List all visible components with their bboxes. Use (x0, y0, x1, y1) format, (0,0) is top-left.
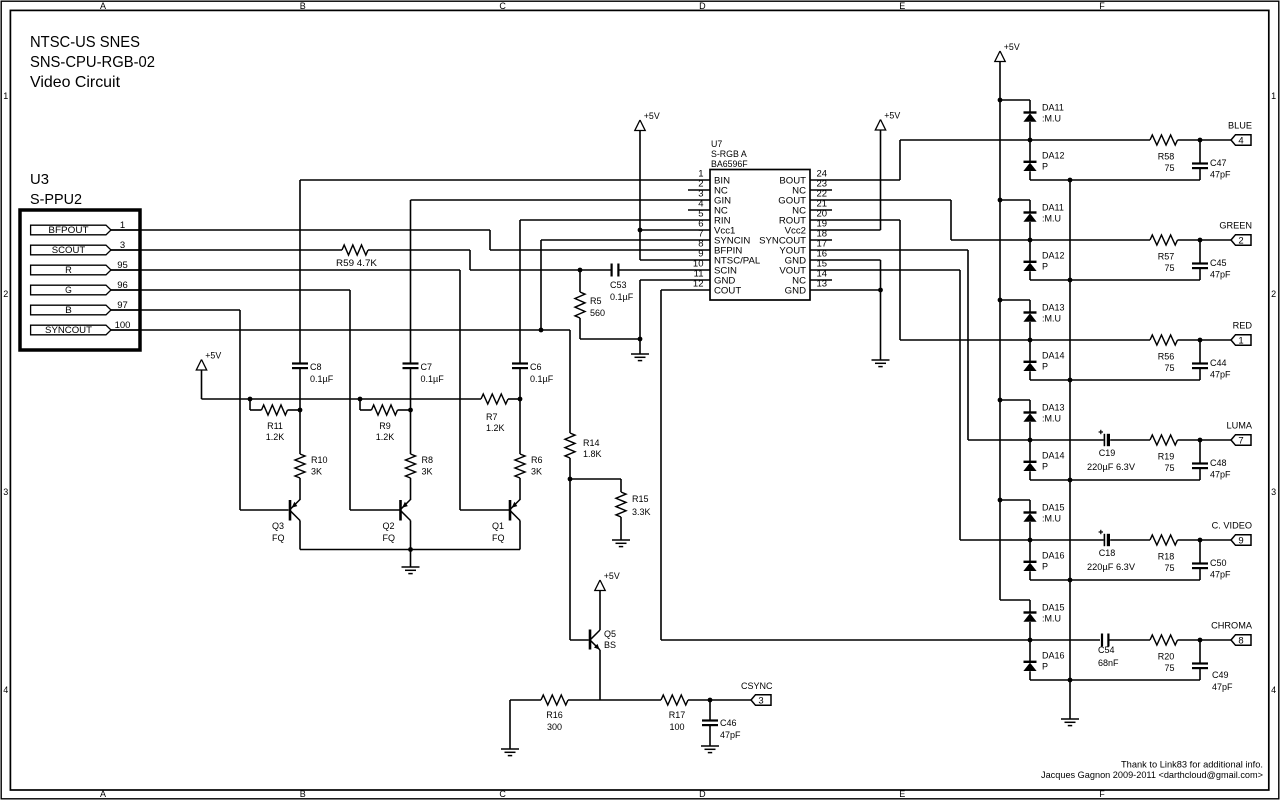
svg-text:+5V: +5V (884, 111, 900, 121)
svg-text:FQ: FQ (272, 533, 285, 543)
svg-text:E: E (899, 1, 905, 11)
wire VOUT net (810, 269, 960, 271)
svg-text:+5V: +5V (604, 571, 620, 581)
svg-text:9: 9 (1238, 536, 1243, 547)
wire SCOUT net right (368, 249, 470, 251)
wire BIN net (300, 179, 710, 181)
wire R58 to output node (1178, 139, 1201, 141)
wire R57 to output node (1178, 239, 1201, 241)
svg-text:R17: R17 (669, 710, 686, 720)
svg-text:C46: C46 (720, 718, 737, 728)
U3 pin SCOUT (3) (31, 245, 111, 255)
svg-text:47pF: 47pF (1210, 270, 1231, 280)
svg-text:75: 75 (1164, 663, 1174, 673)
node rail junction BLUE (1068, 178, 1073, 183)
svg-text:R18: R18 (1158, 552, 1175, 562)
node signal junction C. VIDEO (1028, 538, 1033, 543)
svg-text:2: 2 (1271, 289, 1276, 299)
node signal junction RED (1028, 338, 1033, 343)
wire R17 to CSYNC node (688, 699, 710, 701)
svg-text:DA15: DA15 (1042, 603, 1065, 613)
wire R19 to output node (1178, 439, 1201, 441)
svg-text:1.2K: 1.2K (376, 432, 395, 442)
svg-text::M.U: :M.U (1042, 414, 1061, 424)
svg-text:R9: R9 (379, 421, 391, 431)
net flag CSYNC (710, 699, 751, 701)
svg-text:8: 8 (1238, 636, 1243, 647)
wire clamp rail CHROMA (1030, 679, 1200, 681)
svg-text:+5V: +5V (1004, 42, 1020, 52)
svg-text:BA6596F: BA6596F (711, 159, 748, 169)
svg-text:P: P (1042, 162, 1048, 172)
resistor R11 1.2K (249, 399, 251, 410)
wire RIN net (520, 219, 710, 221)
wire U7 pin13 GND (810, 289, 881, 291)
node rail junction CHROMA (1068, 678, 1073, 683)
svg-text:RED: RED (1233, 321, 1253, 331)
svg-text:DA13: DA13 (1042, 403, 1065, 413)
svg-text:3K: 3K (531, 467, 542, 477)
wire R10 to Q3 (299, 478, 301, 500)
wire Q5 emitter (599, 650, 601, 700)
svg-text:R: R (65, 265, 72, 275)
svg-text:C18: C18 (1099, 548, 1116, 558)
svg-text:C44: C44 (1210, 358, 1227, 368)
wire +5V branch RED (1000, 299, 1030, 301)
wire +5V branch C. VIDEO (1000, 499, 1030, 501)
svg-text:R8: R8 (422, 455, 434, 465)
svg-text:R57: R57 (1158, 252, 1175, 262)
svg-text:SNS-CPU-RGB-02: SNS-CPU-RGB-02 (30, 54, 155, 71)
resistor R17 100 (661, 695, 688, 705)
svg-text:E: E (899, 789, 905, 799)
resistor R7 1.2K (481, 394, 508, 404)
wire U7 pin11 GND (640, 279, 710, 281)
wire Vcc1 (640, 229, 710, 231)
wire clamp rail LUMA (1030, 479, 1200, 481)
resistor R58 75 (1150, 135, 1178, 145)
svg-text:R58: R58 (1158, 152, 1175, 162)
svg-text:560: 560 (590, 308, 605, 318)
diode DA14 (P) lower clamp RED (1029, 340, 1031, 362)
svg-text:GND: GND (785, 285, 806, 296)
node R11 branch junction (248, 397, 253, 402)
svg-text:R10: R10 (311, 455, 328, 465)
wire BFPOUT net (111, 229, 490, 231)
power +5V Q5 (595, 580, 605, 591)
svg-text:R56: R56 (1158, 352, 1175, 362)
node rail junction C. VIDEO (1068, 578, 1073, 583)
capacitor C53 0.1uF (610, 264, 612, 277)
svg-text:1: 1 (3, 91, 8, 101)
wire B signal (111, 309, 240, 311)
node +5V branch junction RED (998, 298, 1003, 303)
node CSYNC junction (708, 698, 713, 703)
svg-text:R7: R7 (486, 412, 498, 422)
svg-text:47pF: 47pF (1210, 470, 1231, 480)
capacitor C48 47pF (1199, 440, 1201, 464)
svg-text:R16: R16 (546, 710, 563, 720)
svg-text:P: P (1042, 262, 1048, 272)
diode DA14 (P) lower clamp LUMA (1029, 440, 1031, 462)
svg-text:S-RGB A: S-RGB A (711, 149, 747, 159)
wire R18 to output node (1178, 539, 1201, 541)
svg-text:NTSC-US SNES: NTSC-US SNES (30, 34, 140, 51)
diode DA11 (:M.U) upper clamp GREEN (1029, 200, 1031, 213)
wire Vcc2 (810, 229, 881, 231)
transistor Q5 (BS) NPN (589, 630, 592, 650)
node rail junction GREEN (1068, 278, 1073, 283)
wire clamp rail C. VIDEO (1030, 579, 1200, 581)
svg-text:R5: R5 (590, 296, 602, 306)
svg-text:Q3: Q3 (272, 521, 284, 531)
svg-text:7: 7 (1238, 436, 1243, 447)
svg-text:13: 13 (817, 279, 828, 290)
U3 pin R (95) (31, 265, 111, 275)
svg-text:SYNCOUT: SYNCOUT (45, 325, 92, 335)
svg-text:220µF 6.3V: 220µF 6.3V (1087, 462, 1135, 472)
ground (1069, 680, 1071, 719)
svg-text:47pF: 47pF (720, 730, 741, 740)
wire G signal (111, 289, 350, 291)
node SYNCOUT junction (539, 328, 544, 333)
node output junction GREEN (1198, 238, 1203, 243)
svg-text:FQ: FQ (383, 533, 396, 543)
resistor R16 300 (541, 695, 568, 705)
net flag GREEN (1200, 239, 1231, 241)
svg-text:C54: C54 (1098, 645, 1115, 655)
svg-text:R14: R14 (583, 438, 600, 448)
svg-text:CSYNC: CSYNC (741, 681, 773, 691)
wire +5V branch BLUE (1000, 99, 1030, 101)
svg-text:A: A (100, 1, 106, 11)
node R7/C6 junction (518, 397, 523, 402)
wire clamp rail RED (1030, 379, 1200, 381)
svg-text:DA14: DA14 (1042, 351, 1065, 361)
svg-text:1: 1 (1238, 336, 1243, 347)
svg-text:0.1µF: 0.1µF (421, 374, 445, 384)
node output junction CHROMA (1198, 638, 1203, 643)
diode DA13 (:M.U) upper clamp LUMA (1029, 400, 1031, 413)
svg-text:220µF 6.3V: 220µF 6.3V (1087, 562, 1135, 572)
svg-text:47pF: 47pF (1212, 682, 1233, 692)
svg-text:R20: R20 (1158, 652, 1175, 662)
U3 pin B (97) (31, 305, 111, 315)
svg-text:BS: BS (604, 640, 616, 650)
svg-text:47pF: 47pF (1210, 370, 1231, 380)
svg-text:12: 12 (693, 279, 704, 290)
svg-text:LUMA: LUMA (1226, 421, 1252, 431)
node signal junction LUMA (1028, 438, 1033, 443)
svg-text:3K: 3K (422, 467, 433, 477)
svg-text:DA16: DA16 (1042, 651, 1065, 661)
node C8/R11/R10 junction (298, 408, 303, 413)
wire SYNCOUT to SYNCIN (540, 240, 542, 330)
wire SCIN coupling (580, 269, 611, 271)
node +5V branch junction LUMA (998, 398, 1003, 403)
svg-text:F: F (1099, 1, 1105, 11)
resistor R8 3K (410, 410, 412, 454)
svg-text:1.8K: 1.8K (583, 449, 602, 459)
power +5V output clamp rail (995, 51, 1005, 62)
net flag LUMA (1200, 439, 1231, 441)
svg-text:BFPOUT: BFPOUT (48, 225, 89, 235)
capacitor C54 68nF (1101, 634, 1103, 647)
resistor R19 75 (1150, 435, 1178, 445)
diode DA15 (:M.U) upper clamp C. VIDEO (1029, 500, 1031, 513)
capacitor C7 0.1uF (410, 200, 412, 364)
svg-text:D: D (699, 1, 706, 11)
capacitor C47 47pF (1199, 140, 1201, 164)
wire clamp rail GREEN (1030, 279, 1200, 281)
svg-text:F: F (1099, 789, 1105, 799)
U3 pin G (96) (31, 285, 111, 295)
wire +5V rail (202, 398, 482, 400)
svg-text:C50: C50 (1210, 558, 1227, 568)
svg-text:C8: C8 (310, 362, 322, 372)
wire Q1 collector (519, 521, 521, 550)
wire GIN net (411, 199, 711, 201)
wire YOUT net (810, 249, 968, 251)
svg-text:C7: C7 (421, 362, 433, 372)
wire CSYNC rail left (510, 699, 541, 701)
resistor R6 3K (519, 399, 521, 454)
node SCIN junction (578, 268, 583, 273)
svg-text:DA12: DA12 (1042, 251, 1065, 261)
svg-text:U7: U7 (711, 139, 722, 149)
wire Q2 collector (410, 521, 412, 550)
svg-text:P: P (1042, 562, 1048, 572)
node ground rail junction (408, 547, 413, 552)
svg-text:R19: R19 (1158, 452, 1175, 462)
transistor Q2 (FQ) PNP (399, 500, 402, 521)
resistor R9 1.2K (359, 399, 361, 410)
node Vcc1 junction (638, 228, 643, 233)
wire +5V branch GREEN (1000, 199, 1030, 201)
wire NTSC/PAL tie high (640, 259, 710, 261)
svg-text:47pF: 47pF (1210, 170, 1231, 180)
svg-text:C45: C45 (1210, 258, 1227, 268)
capacitor C50 47pF (1199, 540, 1201, 564)
node R9 branch junction (358, 397, 363, 402)
svg-text:1.2K: 1.2K (486, 423, 505, 433)
svg-text:Q1: Q1 (492, 521, 504, 531)
capacitor C46 47pF (709, 700, 711, 721)
svg-text:P: P (1042, 462, 1048, 472)
svg-text:2: 2 (3, 289, 8, 299)
wire R20 to output node (1178, 639, 1201, 641)
svg-text:68nF: 68nF (1098, 658, 1119, 668)
wire R16 to R17 (568, 699, 661, 701)
svg-text:SCOUT: SCOUT (52, 245, 86, 255)
node C7/R9/R8 junction (408, 408, 413, 413)
wire Q3 collector (299, 521, 301, 550)
capacitor C44 47pF (1199, 340, 1201, 364)
svg-text:G: G (65, 285, 72, 295)
svg-text:S-PPU2: S-PPU2 (30, 191, 82, 208)
resistor R10 3K (299, 410, 301, 454)
diode DA12 (P) lower clamp BLUE (1029, 140, 1031, 162)
svg-text:DA13: DA13 (1042, 303, 1065, 313)
node +5V branch junction BLUE (998, 98, 1003, 103)
resistor R56 75 (1150, 335, 1178, 345)
ground (410, 550, 412, 568)
svg-text:C: C (499, 789, 506, 799)
wire clamp common rail (1069, 180, 1071, 680)
node signal junction BLUE (1028, 138, 1033, 143)
net flag C. VIDEO (1200, 539, 1231, 541)
svg-text:+5V: +5V (205, 351, 221, 361)
svg-text:75: 75 (1164, 263, 1174, 273)
wire R14 to R15 (570, 478, 621, 480)
wire C54 to R20 (1109, 639, 1150, 641)
svg-text:B: B (300, 789, 306, 799)
wire clamp rail BLUE (1030, 179, 1200, 181)
svg-text:R6: R6 (531, 455, 543, 465)
svg-text:0.1µF: 0.1µF (530, 374, 554, 384)
diode DA11 (:M.U) upper clamp BLUE (1029, 100, 1031, 113)
svg-text:Q5: Q5 (604, 629, 616, 639)
svg-text:C19: C19 (1099, 448, 1116, 458)
svg-text::M.U: :M.U (1042, 114, 1061, 124)
capacitor C45 47pF (1199, 240, 1201, 264)
wire C19 to resistor (1110, 439, 1150, 441)
svg-text:B: B (300, 1, 306, 11)
wire ROUT net (810, 219, 900, 221)
node output junction RED (1198, 338, 1203, 343)
resistor R14 1.8K (565, 433, 575, 458)
svg-text::M.U: :M.U (1042, 214, 1061, 224)
U3 pin BFPOUT (1) (31, 225, 111, 235)
wire R14 node to Q5 base (569, 479, 571, 640)
svg-text:R15: R15 (632, 494, 649, 504)
resistor R18 75 (1150, 535, 1178, 545)
wire R56 to output node (1178, 339, 1201, 341)
svg-text:B: B (65, 305, 72, 315)
svg-text:3: 3 (3, 487, 8, 497)
svg-text:75: 75 (1164, 463, 1174, 473)
power +5V amp rail (196, 360, 206, 371)
svg-text:100: 100 (669, 722, 684, 732)
ground (709, 725, 711, 746)
svg-text:DA14: DA14 (1042, 451, 1065, 461)
wire BOUT net (810, 179, 900, 181)
svg-text:3: 3 (1271, 487, 1276, 497)
net flag BLUE (1200, 139, 1231, 141)
svg-text:DA16: DA16 (1042, 551, 1065, 561)
svg-text:300: 300 (547, 722, 562, 732)
node signal junction GREEN (1028, 238, 1033, 243)
svg-text:C49: C49 (1212, 670, 1229, 680)
wire C18 to resistor (1110, 539, 1150, 541)
svg-text:Q2: Q2 (383, 521, 395, 531)
svg-text:D: D (699, 789, 706, 799)
svg-text:U3: U3 (30, 171, 49, 188)
wire COUT net (661, 289, 710, 291)
node R14/R15 junction (568, 477, 573, 482)
svg-text:4: 4 (1238, 136, 1243, 147)
svg-text:0.1µF: 0.1µF (610, 292, 634, 302)
svg-text:3.3K: 3.3K (632, 507, 651, 517)
diode DA12 (P) lower clamp GREEN (1029, 240, 1031, 262)
svg-text:A: A (100, 789, 106, 799)
svg-text:75: 75 (1164, 563, 1174, 573)
svg-text:P: P (1042, 362, 1048, 372)
svg-text:BLUE: BLUE (1228, 121, 1252, 131)
wire +5V to last clamp branch (1000, 599, 1030, 601)
svg-text:C53: C53 (610, 280, 627, 290)
svg-text:C6: C6 (530, 362, 542, 372)
diode DA13 (:M.U) upper clamp RED (1029, 300, 1031, 313)
power +5V U7 Vcc1 (635, 120, 645, 131)
svg-text:4: 4 (3, 685, 8, 695)
wire SYNCOUT net (111, 329, 570, 331)
capacitor C49 47pF (1199, 640, 1201, 664)
node GND13 junction (878, 288, 883, 293)
svg-text::M.U: :M.U (1042, 314, 1061, 324)
wire R7 to C6 node (508, 398, 520, 400)
svg-text:R59 4.7K: R59 4.7K (336, 258, 378, 268)
wire SCOUT net left (111, 249, 342, 251)
svg-text:DA11: DA11 (1042, 103, 1064, 113)
svg-text:C: C (499, 1, 506, 11)
node rail junction RED (1068, 378, 1073, 383)
svg-text:4: 4 (1271, 685, 1276, 695)
svg-text:DA12: DA12 (1042, 151, 1065, 161)
svg-text:COUT: COUT (714, 285, 741, 296)
node output junction C. VIDEO (1198, 538, 1203, 543)
resistor R59 4.7K (342, 245, 368, 255)
svg-text:0.1µF: 0.1µF (310, 374, 334, 384)
power +5V U7 Vcc2 (875, 120, 885, 131)
capacitor C6 0.1uF (519, 220, 521, 364)
wire R6 to Q1 (519, 478, 521, 500)
capacitor C8 0.1uF (299, 180, 301, 364)
node +5V branch junction C. VIDEO (998, 498, 1003, 503)
svg-text:1: 1 (1271, 91, 1276, 101)
svg-text:DA15: DA15 (1042, 503, 1065, 513)
svg-text:CHROMA: CHROMA (1211, 621, 1253, 631)
svg-text:Video Circuit: Video Circuit (30, 74, 121, 91)
wire SYNCOUT to R14 (569, 330, 571, 433)
node rail junction LUMA (1068, 478, 1073, 483)
svg-text:C47: C47 (1210, 158, 1227, 168)
capacitor C19 220uF 6.3V polarized (1103, 434, 1105, 446)
svg-text::M.U: :M.U (1042, 514, 1061, 524)
wire GOUT net (810, 199, 951, 201)
svg-text:75: 75 (1164, 163, 1174, 173)
ground (509, 700, 511, 749)
node GND junction (638, 337, 643, 342)
transistor Q1 (FQ) PNP (509, 500, 512, 521)
node signal junction CHROMA (1028, 638, 1033, 643)
svg-text:+5V: +5V (644, 111, 660, 121)
wire R8 to Q2 (410, 478, 412, 500)
svg-text::M.U: :M.U (1042, 614, 1061, 624)
svg-text:R11: R11 (267, 421, 283, 431)
capacitor C18 220uF 6.3V polarized (1103, 534, 1105, 546)
svg-text:P: P (1042, 662, 1048, 672)
wire R signal (111, 269, 460, 271)
wire +5V branch LUMA (1000, 399, 1030, 401)
wire R5 to ground net (579, 318, 581, 339)
wire emitter ground rail (300, 549, 520, 551)
resistor R5 560 (579, 270, 581, 292)
svg-text:3: 3 (758, 696, 763, 707)
svg-text:1.2K: 1.2K (266, 432, 285, 442)
resistor R57 75 (1150, 235, 1178, 245)
node +5V branch junction GREEN (998, 198, 1003, 203)
